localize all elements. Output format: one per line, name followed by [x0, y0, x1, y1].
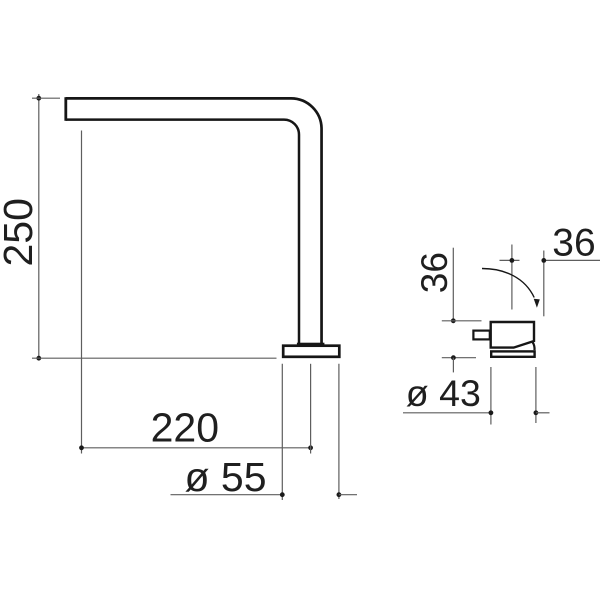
- dim 36 top dot: [541, 258, 546, 263]
- dim 220 line: [82, 447, 311, 449]
- dim o55 right dot: [337, 492, 342, 497]
- spout end cap: [64, 97, 67, 121]
- spout outer profile: [66, 98, 322, 345]
- dim 36 top line: [544, 259, 600, 261]
- handle lever nub: [473, 331, 489, 340]
- extension line flange right: [338, 364, 340, 499]
- extension line outlet: [81, 131, 83, 454]
- tilted disc wedge: [533, 342, 535, 350]
- base flange: [283, 346, 339, 357]
- extension line bottom (flange bottom level): [32, 357, 277, 359]
- center line dot: [510, 258, 515, 263]
- dim o55 tail right: [339, 494, 357, 496]
- dim 250 bottom dot: [36, 356, 41, 361]
- svg-text:ø 55: ø 55: [185, 454, 267, 500]
- spout inner profile: [66, 120, 299, 346]
- dim o43 line: [403, 412, 491, 414]
- svg-text:250: 250: [0, 198, 41, 266]
- extension line top (spout top): [32, 97, 60, 99]
- extension line flange left: [281, 364, 283, 500]
- svg-text:36: 36: [414, 252, 455, 293]
- dim 250 vertical line: [38, 94, 40, 358]
- dim 220 left dot: [79, 445, 84, 450]
- svg-text:220: 220: [151, 405, 219, 451]
- dim o43 tail: [536, 412, 550, 414]
- center line tick: [500, 259, 520, 261]
- dim 250 top dot: [36, 96, 41, 101]
- handle base: [491, 351, 534, 356]
- dim 36 left vertical line: [452, 248, 454, 321]
- dim 36 left top dot: [451, 318, 456, 323]
- swivel arc: [482, 269, 534, 298]
- handle body: [491, 322, 534, 348]
- svg-text:ø 43: ø 43: [406, 372, 481, 414]
- dim 36 left bottom extension: [442, 357, 476, 359]
- extension line base left: [490, 367, 492, 425]
- svg-text:36: 36: [552, 221, 595, 264]
- extension line tube axis: [310, 364, 312, 454]
- dim 36 left bottom tail: [452, 358, 454, 373]
- dim 36 left top extension: [442, 320, 482, 322]
- dim 36 left bottom dot: [451, 355, 456, 360]
- extension line base right: [535, 367, 537, 423]
- dim o43 left dot: [489, 410, 494, 415]
- dim 220 right dot: [308, 445, 313, 450]
- dim o55 line left part: [171, 494, 283, 496]
- dim o55 left dot: [280, 492, 285, 497]
- handle center line: [511, 245, 513, 310]
- dim o43 right dot: [534, 410, 539, 415]
- joint band at tube base: [297, 343, 325, 346]
- swivel arrowhead: [534, 299, 540, 308]
- swivel extent line: [543, 251, 545, 317]
